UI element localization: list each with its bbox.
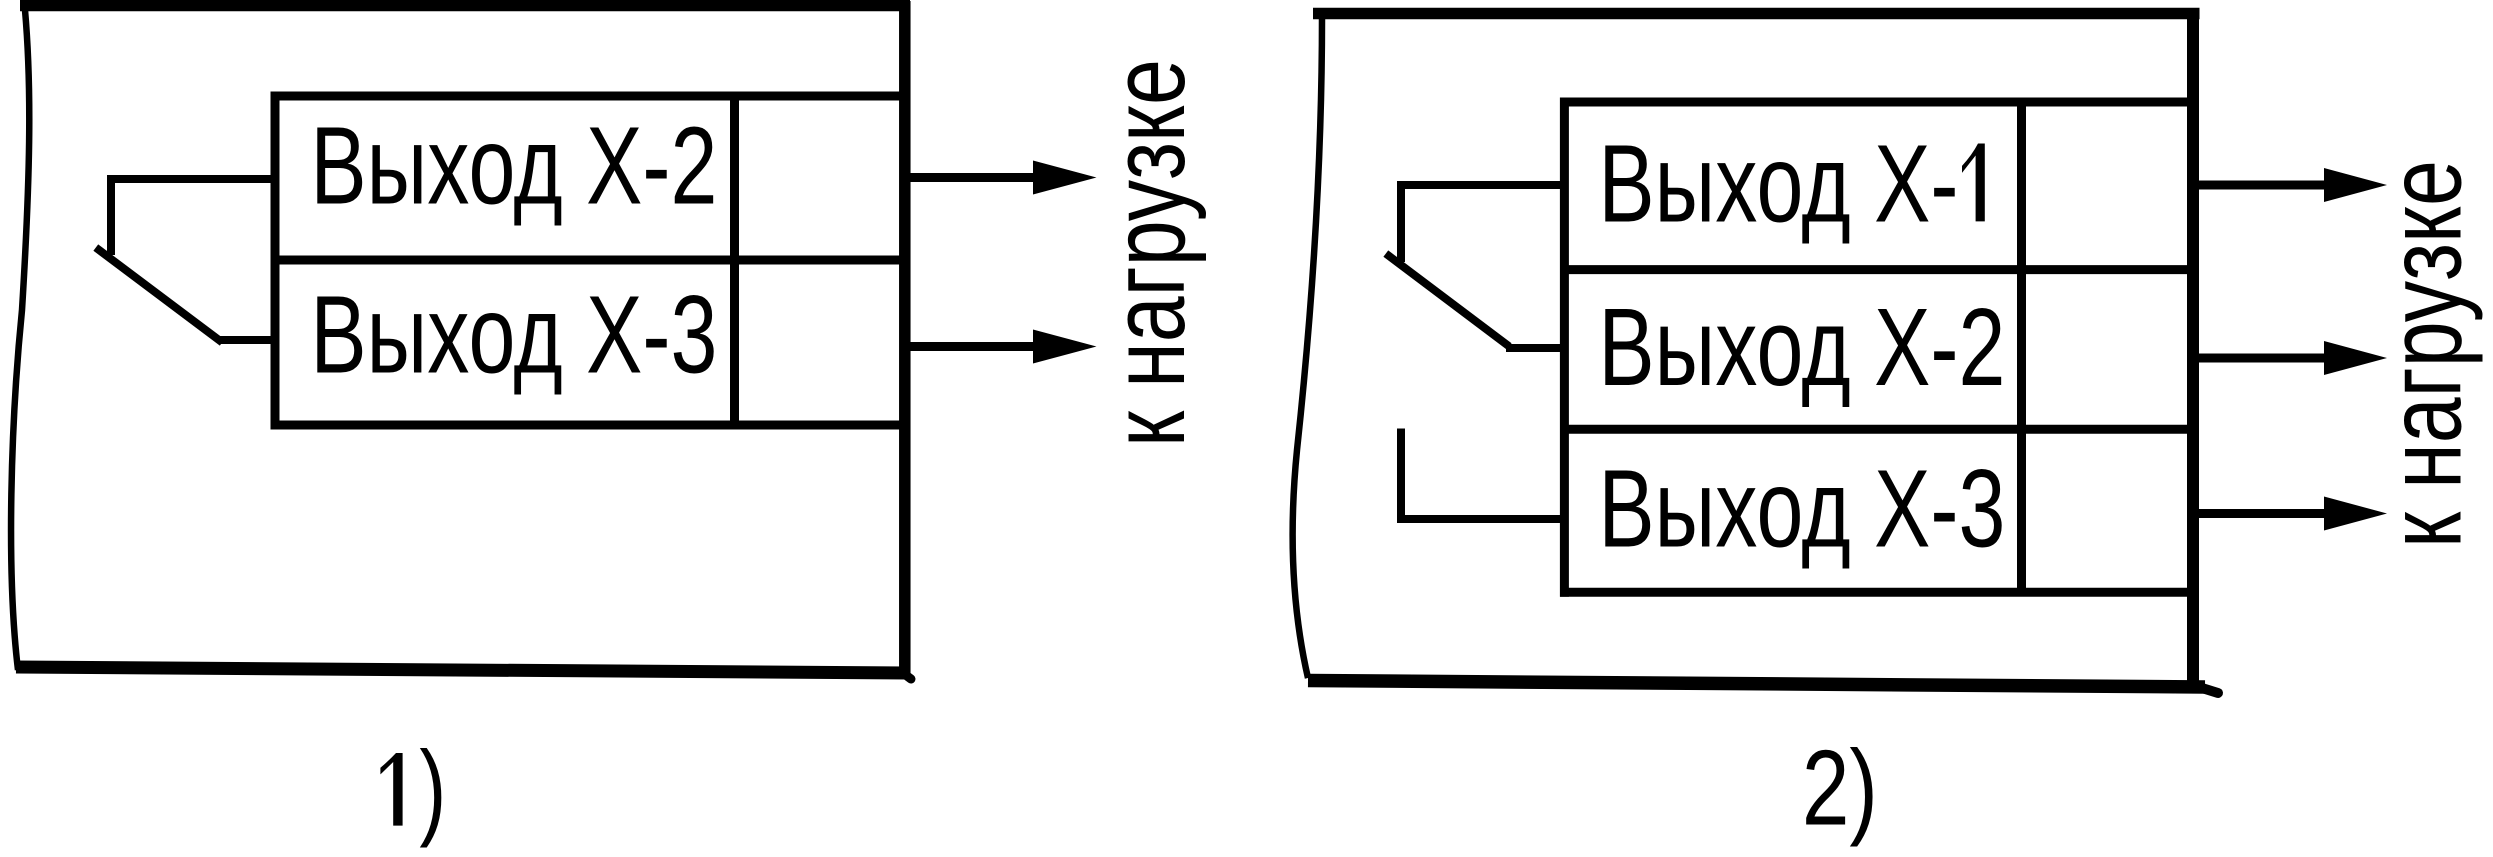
svg-text:Выход Х-3: Выход Х-3 (310, 274, 717, 397)
svg-text:): ) (419, 730, 446, 849)
svg-text:Выход Х-2: Выход Х-2 (310, 105, 717, 228)
svg-text:Выход Х-2: Выход Х-2 (1598, 286, 2005, 409)
svg-text:Выход Х-3: Выход Х-3 (1598, 448, 2005, 571)
svg-text:к нагрузке: к нагрузке (1090, 59, 1207, 447)
svg-text:Выход Х-: Выход Х- (1598, 122, 1958, 245)
svg-text:2): 2) (1802, 728, 1878, 847)
svg-text:к нагрузке: к нагрузке (2367, 160, 2484, 548)
